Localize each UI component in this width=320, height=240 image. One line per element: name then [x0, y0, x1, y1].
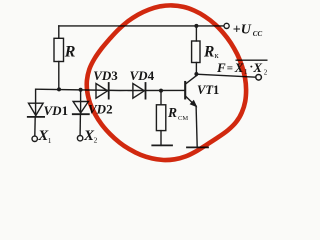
- ground (Rcm): [152, 144, 172, 146]
- diode VD2 (input X2): [73, 90, 89, 136]
- red marker ellipse: [87, 5, 246, 160]
- junction dot: R bottom on bus: [57, 87, 61, 91]
- wire: top rail from corner above R to +Ucc terminal: [59, 25, 224, 27]
- wire: input bus (anode rail) from VD1 to VT1 base: [36, 89, 185, 90]
- diode VD4: [133, 83, 146, 99]
- ground (emitter): [187, 146, 208, 148]
- svg-text:CC: CC: [253, 30, 263, 38]
- svg-text:1: 1: [48, 136, 52, 145]
- wire: R bottom lead down to input bus: [58, 62, 60, 90]
- junction dot: VD2 anode on bus: [79, 88, 83, 92]
- svg-text:F: F: [216, 60, 226, 75]
- junction dot: Rcm top on bus: [159, 89, 163, 93]
- svg-text:=: =: [227, 63, 233, 75]
- svg-text:VD4: VD4: [130, 68, 155, 83]
- wire: R top lead: [58, 26, 60, 38]
- junction dot: collector node: [194, 72, 198, 76]
- transistor VT1: [185, 63, 197, 148]
- svg-text:СМ: СМ: [178, 115, 188, 122]
- junction dot: Rk top on rail: [194, 24, 198, 28]
- wire: output F from collector to terminal: [196, 74, 255, 77]
- svg-text:R: R: [167, 105, 177, 120]
- terminal F output: [256, 75, 262, 81]
- svg-text:X: X: [252, 60, 262, 75]
- resistor R: [54, 38, 64, 61]
- svg-text:VT1: VT1: [197, 83, 219, 97]
- terminal X2: [77, 136, 82, 141]
- resistor Rcm: [156, 91, 165, 146]
- svg-text:R: R: [203, 44, 214, 61]
- diode VD1 (input X1): [28, 89, 44, 136]
- svg-text:2: 2: [94, 135, 98, 144]
- svg-text:VD1: VD1: [44, 103, 69, 118]
- svg-text:VD3: VD3: [93, 68, 118, 83]
- svg-text:к: к: [215, 50, 220, 60]
- svg-text:+U: +U: [233, 23, 252, 38]
- terminal X1: [32, 136, 37, 141]
- svg-text:R: R: [64, 44, 76, 61]
- terminal +Ucc: [224, 23, 229, 28]
- svg-text:2: 2: [264, 69, 268, 77]
- overline of X1·X2: [236, 59, 268, 61]
- diode VD3: [96, 83, 109, 99]
- resistor Rk: [192, 26, 200, 63]
